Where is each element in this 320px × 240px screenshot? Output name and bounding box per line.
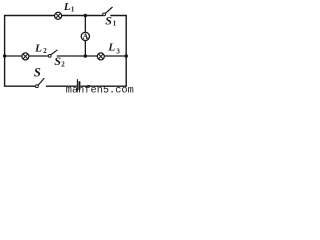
svg-text:1: 1 — [71, 6, 75, 14]
label S2 — [54, 54, 65, 68]
svg-text:L: L — [63, 1, 71, 13]
wire: bottom segment from switch S to battery — [46, 85, 77, 87]
svg-text:1: 1 — [113, 20, 117, 28]
ammeter A1 — [81, 32, 89, 41]
wire: bottom segment from battery to right corner — [81, 85, 127, 87]
wire: outer loop left border — [4, 16, 6, 87]
wire: ammeter vertical branch — [84, 16, 86, 57]
svg-text:S: S — [54, 54, 61, 68]
wire: top segment from switch S1 to right corner — [110, 15, 127, 17]
svg-text:2: 2 — [61, 60, 65, 68]
label L1 — [63, 1, 75, 14]
watermark manfen5.com — [66, 84, 134, 96]
svg-text:A: A — [82, 32, 88, 41]
label L2 — [34, 43, 47, 56]
lamp L1 — [55, 12, 62, 19]
wire: middle branch right part (switch S2 to right border) — [57, 55, 126, 57]
switch S — [36, 78, 45, 88]
junction dot: middle wire to left border — [3, 54, 6, 57]
lamp L3 — [97, 53, 104, 60]
switch S1 — [103, 7, 113, 16]
svg-text:S: S — [105, 14, 112, 28]
wire: bottom segment from left corner to switch S — [4, 85, 36, 87]
wire: middle branch left part (left border to switch S2) — [5, 55, 49, 57]
wire: outer loop right border — [125, 16, 127, 87]
junction dot: middle wire to right border — [124, 54, 128, 58]
battery cell: long positive plate — [76, 79, 78, 91]
label S1 — [105, 14, 117, 28]
wire: top segment from left corner to switch S1 — [4, 15, 103, 17]
svg-text:S: S — [34, 66, 41, 80]
junction dot: top wire to ammeter branch — [84, 14, 88, 18]
svg-text:2: 2 — [43, 47, 47, 55]
svg-text:3: 3 — [116, 47, 120, 55]
svg-text:L: L — [34, 43, 42, 55]
lamp L2 — [22, 53, 29, 60]
battery cell: short thick negative plate — [78, 81, 80, 90]
svg-text:manfen5.com: manfen5.com — [66, 84, 134, 93]
junction dot: ammeter branch to middle wire — [84, 54, 88, 58]
label S — [34, 66, 41, 80]
switch S2 — [48, 50, 57, 58]
svg-text:L: L — [107, 41, 115, 53]
label L3 — [107, 41, 120, 55]
